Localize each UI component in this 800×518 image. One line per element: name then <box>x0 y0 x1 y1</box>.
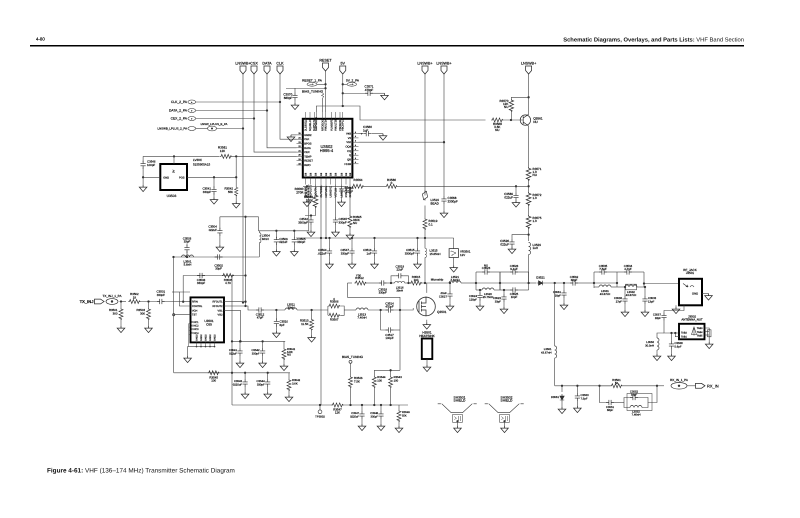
wire pair merge <box>340 306 344 315</box>
svg-text:NC2: NC2 <box>194 325 200 328</box>
wire R3544 to bus <box>373 388 375 405</box>
svg-text:18: 18 <box>133 295 137 299</box>
junction LNSWB/LPLUS <box>242 127 244 129</box>
ground R3503 <box>148 320 150 326</box>
svg-text:TX_INJ: TX_INJ <box>80 299 94 304</box>
svg-text:TAB1: TAB1 <box>681 336 687 339</box>
svg-text:330pF: 330pF <box>197 281 205 285</box>
svg-text:TAB3: TAB3 <box>697 327 703 330</box>
svg-text:Q3501: Q3501 <box>437 310 447 314</box>
wire to RF jack <box>644 283 679 285</box>
svg-text:7.46nH: 7.46nH <box>450 278 459 282</box>
svg-text:Microstrip: Microstrip <box>431 278 444 282</box>
wire L3529 to PA line <box>528 255 530 284</box>
resistor R3564 <box>352 184 364 188</box>
junction 5V loop <box>342 105 344 107</box>
ground R3542b <box>288 391 290 395</box>
svg-text:U3503: U3503 <box>167 194 177 198</box>
svg-text:5.6nH: 5.6nH <box>184 263 192 267</box>
inductor L3521 <box>449 281 461 283</box>
capacitor C3518 <box>379 280 387 285</box>
svg-text:LNSWB+: LNSWB+ <box>521 62 536 66</box>
wire DATA vertical <box>267 74 297 148</box>
svg-text:3300pF: 3300pF <box>298 220 308 224</box>
ground R3542 reg <box>235 197 237 202</box>
junction U3503 GND <box>142 176 144 178</box>
svg-text:NC3: NC3 <box>194 328 200 331</box>
wire R3561 to U3502 <box>232 155 297 157</box>
capacitor C3552 <box>624 398 630 403</box>
capacitor C3570 <box>294 88 296 92</box>
svg-text:CLK_2_PA: CLK_2_PA <box>171 100 188 104</box>
wire BIAS_TUNING down <box>322 98 324 112</box>
voltage regulator U3503 <box>160 164 187 190</box>
svg-text:1uH: 1uH <box>533 246 539 250</box>
svg-text:DATA: DATA <box>262 62 272 66</box>
junction row1 VG1 <box>239 340 241 342</box>
svg-text:DATA_2_PA: DATA_2_PA <box>169 109 188 113</box>
svg-text:25.75nH: 25.75nH <box>483 295 493 299</box>
svg-text:330pF: 330pF <box>257 382 265 386</box>
svg-text:VG1: VG1 <box>217 309 223 312</box>
wire C3568 ground <box>443 204 445 211</box>
svg-text:V3: V3 <box>348 137 352 140</box>
svg-text:330pF: 330pF <box>252 351 260 355</box>
wire stage2 middle <box>594 282 617 284</box>
ground R3560 <box>303 200 311 207</box>
svg-text:GND2: GND2 <box>209 334 212 341</box>
svg-text:43.67nH: 43.67nH <box>541 350 551 354</box>
svg-text:HEATSINK: HEATSINK <box>419 334 435 338</box>
wire LNSWB+ column B <box>443 74 445 196</box>
wire R3566 to column <box>398 185 529 187</box>
wire DATA_2_PA <box>196 110 267 112</box>
svg-text:VCH: VCH <box>192 309 197 312</box>
wire V10 to LNSWB column <box>359 141 445 143</box>
inductor L3556 <box>657 333 664 338</box>
ground jack right <box>705 294 713 301</box>
ground H3501 <box>426 359 428 365</box>
wire to RX_IN pad <box>657 385 664 387</box>
wire row2 leg to bus <box>231 373 233 405</box>
inductor L3516 <box>395 281 405 283</box>
svg-text:7.5pF: 7.5pF <box>581 396 588 400</box>
resistor R3570 <box>510 112 512 120</box>
capacitor C3557 <box>661 313 666 321</box>
resistor R3542b <box>288 373 290 379</box>
junction RFOUT2 <box>244 305 246 307</box>
junction bus x321 <box>320 237 322 239</box>
ground C3526 <box>508 247 516 254</box>
capacitor C3512 <box>256 307 264 312</box>
wire filter join <box>528 272 530 290</box>
svg-text:VBCKPLS: VBCKPLS <box>342 119 345 131</box>
junction R3561 riser <box>235 155 237 157</box>
resistor R3546 <box>349 376 353 388</box>
svg-text:Schematic Diagrams, Overlays,: Schematic Diagrams, Overlays, and Parts … <box>563 36 744 43</box>
junction bus x350 <box>349 404 351 406</box>
wire R3568 to Q3561 <box>503 119 523 121</box>
svg-text:BIAS_TUNING: BIAS_TUNING <box>342 355 364 359</box>
inductor L3532 bottom <box>617 286 624 288</box>
resistor R3542 reg <box>235 187 238 197</box>
wire second vertical to RFOUT1 <box>245 217 247 306</box>
svg-text:13pF: 13pF <box>648 299 655 303</box>
diode D3561 <box>561 385 563 387</box>
svg-text:LV30C: LV30C <box>193 158 203 162</box>
capacitor C3545 <box>335 185 337 218</box>
zener VR3501 <box>453 238 455 249</box>
svg-text:RFOUT2: RFOUT2 <box>213 305 224 308</box>
svg-text:SB: SB <box>305 172 308 176</box>
svg-text:TEMP: TEMP <box>304 155 312 158</box>
wire R3575 down <box>528 229 530 241</box>
transistor Q3561 <box>520 115 530 125</box>
svg-text:VMULT2B: VMULT2B <box>335 119 338 131</box>
capacitor C3569 <box>515 186 517 192</box>
capacitor C3561 <box>563 282 565 284</box>
svg-text:RESET: RESET <box>319 59 332 63</box>
U3501 bottom pins <box>196 342 198 346</box>
capacitor C3562 <box>570 280 578 285</box>
capacitor C3550 <box>576 385 578 387</box>
junction R3560 <box>306 185 308 187</box>
svg-text:TAB4: TAB4 <box>697 331 703 334</box>
wire corner to line B <box>246 217 259 231</box>
svg-text:33pF: 33pF <box>215 267 222 271</box>
wire R3515 to drain node <box>422 282 449 284</box>
capacitor C3502 <box>215 254 223 259</box>
capacitor C3546 <box>341 185 343 187</box>
junction antenna node <box>670 332 672 334</box>
wire injection top line <box>220 216 246 218</box>
svg-text:CSX: CSX <box>250 62 258 66</box>
capacitor C3534 top <box>617 271 624 273</box>
ground jack left <box>675 305 677 307</box>
wire power bus <box>296 237 454 239</box>
svg-text:330pF: 330pF <box>341 251 349 255</box>
svg-text:5155905A15: 5155905A15 <box>193 163 211 167</box>
capacitor C3501 <box>157 299 165 304</box>
capacitor C3528 top <box>500 271 510 273</box>
svg-text:5V: 5V <box>340 62 345 66</box>
wire loop left leg <box>182 276 184 302</box>
wire LNSWB+ column A <box>424 74 426 196</box>
wire Q3501 source <box>426 320 428 323</box>
svg-text:BEAD: BEAD <box>431 201 440 205</box>
capacitor C3544 <box>267 372 269 374</box>
svg-text:TX_INJ_1_PA: TX_INJ_1_PA <box>103 294 123 298</box>
svg-text:TST: TST <box>192 314 197 317</box>
capacitor C3522 <box>503 289 505 291</box>
wire R3571 to junction <box>528 181 530 192</box>
junction R3501 <box>120 300 122 302</box>
svg-text:C3527: C3527 <box>439 294 448 298</box>
svg-text:BPOS: BPOS <box>304 143 312 146</box>
junction bus/column A <box>424 237 426 239</box>
capacitor C3508 <box>197 273 205 278</box>
svg-text:SQUELCH: SQUELCH <box>309 118 312 131</box>
wire gate bias feed <box>374 369 400 371</box>
svg-text:330pF: 330pF <box>371 415 379 418</box>
capacitor C3541 <box>239 340 241 342</box>
capacitor C3541 reg <box>213 176 215 178</box>
ground C3524 <box>479 300 481 305</box>
svg-text:022uF: 022uF <box>209 228 217 232</box>
ground C3506 <box>275 244 277 250</box>
wire BIAS_TUNING down <box>350 363 352 376</box>
svg-text:LNSW_LPLUS_E_PA: LNSW_LPLUS_E_PA <box>201 122 228 126</box>
svg-text:GND2: GND2 <box>195 334 198 341</box>
junction RESET pad <box>324 83 326 85</box>
svg-text:VG2: VG2 <box>217 314 223 317</box>
wire L3561 to RX line <box>554 358 556 386</box>
wire C3560 ground <box>372 133 383 135</box>
svg-text:100pF: 100pF <box>385 336 393 340</box>
svg-text:55K: 55K <box>228 190 233 194</box>
ground C3504 <box>219 235 221 245</box>
ground C3561 <box>563 298 565 303</box>
svg-text:11.5K: 11.5K <box>301 322 308 326</box>
wire filter mid <box>499 272 501 290</box>
svg-text:F1SB: F1SB <box>344 163 351 166</box>
svg-text:GND2: GND2 <box>304 134 312 137</box>
capacitor C3571 <box>343 92 365 94</box>
svg-text:GND2: GND2 <box>200 334 203 341</box>
U3502 left pins <box>297 134 303 136</box>
svg-text:3V: 3V <box>173 170 176 173</box>
ground L3556 <box>656 350 658 354</box>
svg-text:CEX_2_PA: CEX_2_PA <box>171 117 188 121</box>
op-amp U3502 frac-N synthesizer <box>303 119 353 178</box>
junction RFOUT1/LNSWB <box>244 301 246 303</box>
svg-text:2L1BSQL: 2L1BSQL <box>305 119 308 131</box>
svg-text:SB: SB <box>340 172 343 176</box>
svg-text:SB: SB <box>345 172 348 176</box>
inductor L3520 bottom <box>476 289 482 291</box>
svg-text:RFIN: RFIN <box>192 301 198 304</box>
ground TAB pins <box>708 339 710 342</box>
junction C3517 right <box>399 309 401 311</box>
wire stage2 mid <box>616 272 618 287</box>
capacitor C3542b <box>261 340 263 342</box>
junction bus x374 <box>373 404 375 406</box>
ground C3542 <box>310 225 312 230</box>
svg-text:NC4: NC4 <box>194 332 200 335</box>
resistor R3507 parallel pair <box>328 313 340 317</box>
U3502 top pins <box>305 112 307 119</box>
capacitor C3515 <box>416 237 418 239</box>
svg-text:330pF: 330pF <box>297 240 305 244</box>
wire U3501 ground bus <box>189 346 215 348</box>
capacitor C3564 <box>328 237 330 239</box>
wire long vertical to bottom bus <box>320 185 322 406</box>
ground R3501 <box>120 320 122 326</box>
svg-text:270R: 270R <box>296 190 304 194</box>
resistor R3543 <box>389 369 391 371</box>
svg-text:NU: NU <box>495 128 499 132</box>
svg-text:7.46nH: 7.46nH <box>357 316 366 320</box>
capacitor C3517 <box>381 310 386 330</box>
wire TAB1 <box>675 333 679 337</box>
svg-text:680pF: 680pF <box>284 96 293 100</box>
wire L3561 tap down <box>554 283 556 346</box>
wire LNSWB to Q3561 collector <box>528 74 530 114</box>
wire CLK vertical <box>280 74 297 139</box>
ground C3510 <box>275 326 277 332</box>
resistor R3561 <box>220 154 232 158</box>
wire stage2 join <box>643 272 645 287</box>
svg-text:100: 100 <box>394 378 399 382</box>
svg-text:100: 100 <box>414 278 419 282</box>
svg-text:0.1: 0.1 <box>429 222 434 226</box>
capacitor C3526 <box>512 235 529 239</box>
svg-text:R3507: R3507 <box>330 318 339 322</box>
capacitor C3525 bottom <box>500 289 510 291</box>
resistor R3505 <box>222 274 234 278</box>
svg-text:55K: 55K <box>402 414 407 417</box>
ground R3549 <box>398 422 400 426</box>
svg-text:NU: NU <box>287 353 291 357</box>
svg-text:LIM1XT: LIM1XT <box>340 188 343 198</box>
svg-text:TAB2: TAB2 <box>681 332 687 335</box>
resistor R3503 <box>148 302 150 309</box>
capacitor C3547 bus <box>361 404 363 406</box>
svg-text:RWO: RWO <box>304 164 310 167</box>
ground C3541 reg <box>213 194 215 198</box>
wire L3513-C3514 <box>368 309 386 311</box>
svg-text:18pF: 18pF <box>655 316 662 320</box>
svg-text:NU: NU <box>353 221 357 225</box>
capacitor C3546 <box>141 161 146 169</box>
wire RX network <box>600 385 611 387</box>
svg-text:.022uF: .022uF <box>318 251 327 255</box>
node TST junction <box>173 314 175 316</box>
svg-text:LNSWB+: LNSWB+ <box>417 62 432 66</box>
junction V10/LNSWB <box>443 141 445 143</box>
capacitor C3536 <box>624 286 626 288</box>
ground VR3501 <box>453 258 455 266</box>
svg-text:SHIELD: SHIELD <box>454 399 467 403</box>
diode D3521 <box>537 281 545 285</box>
capacitor C3514 <box>386 307 394 312</box>
wire CEX_2_PA <box>196 118 254 120</box>
capacitor C3542 <box>310 216 312 218</box>
resistor R3544 <box>373 370 375 376</box>
wire jack bottom <box>664 305 684 312</box>
svg-text:SB: SB <box>314 172 317 176</box>
wire R3512-C3518 <box>367 282 379 284</box>
svg-text:0225uF: 0225uF <box>350 415 359 418</box>
wire pin drop x328 <box>325 185 327 239</box>
wire R3563 down <box>305 208 316 216</box>
svg-text:RESET: RESET <box>304 160 313 163</box>
svg-text:CONTRL: CONTRL <box>192 305 203 308</box>
svg-text:12K: 12K <box>220 149 225 153</box>
resistor R3561 RX <box>611 384 623 388</box>
junction RX tap <box>554 282 556 284</box>
svg-text:Figure 4-61: VHF (136–174 MHz): Figure 4-61: VHF (136–174 MHz) Transmitt… <box>47 468 235 475</box>
svg-text:NU: NU <box>504 105 508 109</box>
ground C3545 <box>335 225 337 230</box>
svg-text:20pF: 20pF <box>555 293 562 297</box>
svg-text:47pF: 47pF <box>257 315 264 319</box>
capacitor C3510 <box>275 309 277 311</box>
wire pad to RX_IN <box>687 385 696 387</box>
wire RESET_1_PA to line <box>317 83 326 85</box>
inductor L3515 <box>424 238 426 248</box>
svg-text:330pF: 330pF <box>203 190 211 194</box>
svg-text:R3564: R3564 <box>354 178 363 182</box>
capacitor C3516 <box>373 237 375 239</box>
wire NC tie <box>188 324 190 347</box>
wire R3546 to bus <box>350 388 352 405</box>
junction loop right <box>244 274 246 276</box>
wire bottom bus <box>232 404 332 406</box>
wire L3515 to PA feed <box>424 258 426 284</box>
svg-text:OUT2SBL: OUT2SBL <box>320 185 323 198</box>
svg-text:39nH: 39nH <box>396 288 403 292</box>
resistor R3568 <box>491 118 503 122</box>
svg-text:RX_IN_1_PA: RX_IN_1_PA <box>670 378 689 382</box>
ground C3533 <box>644 304 646 310</box>
junction row1 <box>231 340 233 342</box>
wire to R3515 <box>405 282 412 284</box>
resistor R3575 <box>526 215 531 229</box>
junction bias node <box>527 185 529 187</box>
svg-text:330pF: 330pF <box>379 290 387 294</box>
svg-text:GND: GND <box>163 176 169 179</box>
capacitor C3505 <box>293 230 295 232</box>
junction DATA pad <box>266 109 268 111</box>
ground C3560 <box>379 134 387 141</box>
svg-text:3300pF: 3300pF <box>405 251 415 255</box>
ground R3565 <box>349 228 351 233</box>
junction R3503 <box>147 300 149 302</box>
svg-text:D3561: D3561 <box>551 395 560 399</box>
wire C3514 to gate <box>394 308 414 310</box>
inductor L3552 <box>624 403 630 408</box>
junction RFIN leg <box>182 301 184 303</box>
wire R3502-C3501 <box>140 301 156 303</box>
resistor R3545 <box>208 371 220 375</box>
svg-text:33pF: 33pF <box>495 299 502 303</box>
wire VG1 leg <box>224 310 241 341</box>
svg-text:300: 300 <box>140 311 145 315</box>
svg-text:39nH: 39nH <box>288 306 295 310</box>
junction RESET C3570 <box>324 87 326 89</box>
svg-text:100: 100 <box>377 378 382 382</box>
wire C3557 to antenna <box>664 321 679 334</box>
inductor L3561 <box>555 346 557 358</box>
ground C3568 <box>440 211 448 218</box>
svg-text:NU: NU <box>533 120 538 124</box>
svg-text:POS: POS <box>179 176 185 179</box>
svg-text:C65: C65 <box>206 322 212 326</box>
wire R3572-R3575 <box>528 206 530 215</box>
ground GND2 pin <box>291 134 297 136</box>
capacitor C3551 <box>600 386 607 403</box>
capacitor C3506 <box>275 230 277 232</box>
svg-text:SHIELD: SHIELD <box>501 399 514 403</box>
resistor R3572 <box>526 192 531 206</box>
junction R3570 bottom <box>510 119 512 121</box>
junction LNSWB/R3570 <box>527 96 529 98</box>
svg-text:3300pF: 3300pF <box>448 199 458 203</box>
svg-text:3.6K: 3.6K <box>292 381 298 385</box>
svg-text:VCTLIM: VCTLIM <box>334 188 337 198</box>
svg-text:022uF: 022uF <box>279 240 287 244</box>
